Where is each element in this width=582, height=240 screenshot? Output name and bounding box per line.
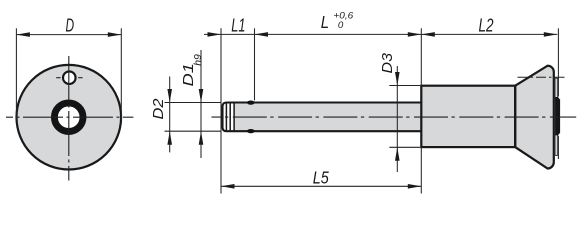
dimension D: extension line left (15, 28, 17, 120)
dimension D: arrow right (108, 32, 122, 37)
dimension D: dimension line (16, 34, 121, 36)
dimension D3: extension line top (389, 85, 420, 87)
arrow L2 left (pointing left) (421, 32, 435, 37)
side view: junction line sleeve/head (514, 86, 516, 147)
front view: center bore ring (58, 106, 80, 128)
side view: release button dark band (555, 97, 560, 135)
extension line at sleeve front (L right / L2 left / L5 right) above (420, 28, 422, 85)
dimension L5: arrow right (408, 184, 422, 189)
side view: tip white block (222, 102, 234, 133)
dimension D: arrow left (16, 32, 30, 37)
front view: pin head disc (17, 65, 122, 170)
side view: main axis centerline (212, 116, 577, 118)
front view: horizontal centerline (6, 116, 133, 118)
svg-text:h9: h9 (192, 54, 204, 66)
svg-text:+0,6: +0,6 (333, 11, 353, 21)
arrow L right (pointing right) (408, 32, 422, 37)
dimension D1/D2: extension line bottom (165, 130, 222, 132)
side view: shaft fill (234, 102, 421, 133)
dimension L5: dimension line (221, 185, 421, 187)
extension line at button face lower part (557, 136, 559, 159)
side view: button cylinder sliver (555, 78, 558, 155)
front view: lanyard hole tick right (78, 77, 82, 79)
dimension D3: extension line bottom (389, 146, 420, 148)
dimension D2: dimension line (169, 77, 171, 153)
svg-text:D3: D3 (379, 52, 396, 73)
dimension D3: arrow top (down) (395, 72, 400, 86)
svg-text:0: 0 (338, 20, 344, 30)
dimension D2: arrow top (down) (167, 89, 172, 103)
side view: sleeve body (421, 86, 515, 147)
arrow L2 right (pointing right) (544, 32, 558, 37)
dimension D1/D2: extension line top (165, 102, 222, 104)
front view: lanyard hole (63, 71, 76, 84)
svg-text:L: L (321, 12, 329, 32)
arrow L1 right / L left (pointing left) (255, 32, 269, 37)
side view: locking ball top (247, 101, 255, 105)
side view: lanyard hole centerline (516, 76, 565, 78)
dimension D1: dimension line (200, 50, 202, 158)
svg-text:L2: L2 (479, 16, 494, 36)
extension line at button face (L2 right) (557, 28, 559, 96)
front view: lanyard hole tick left (56, 77, 60, 79)
svg-text:L1: L1 (231, 15, 245, 36)
dimension D3: dimension line (396, 66, 398, 172)
top dimension line L1/L/L2 (204, 33, 557, 35)
extension line at ball edge (L1 right / L left) (254, 28, 256, 100)
side view: shaft outline with rounded tip (223, 103, 422, 132)
side view: tip chamfer line 1 (225, 103, 227, 131)
side view: tip chamfer line 2 (229, 103, 231, 131)
extension line at sleeve front below (420, 147, 422, 193)
dimension L5: arrow left (221, 184, 235, 189)
dimension D: extension line right (120, 28, 122, 120)
svg-text:L5: L5 (313, 168, 329, 188)
dimension D2: arrow bottom (up) (167, 131, 172, 145)
front view: vertical centerline (68, 56, 70, 181)
extension line at tip (L1/L5 left) (220, 28, 222, 193)
side view: tip chamfer line 3 (233, 103, 235, 131)
svg-text:D2: D2 (150, 98, 167, 120)
arrow L1 left (pointing right) (208, 32, 222, 37)
dimension D3: arrow bottom (up) (395, 147, 400, 161)
side view: head cone (515, 66, 554, 169)
side view: locking ball bottom (247, 129, 255, 133)
dimension D1: arrow bottom (up) (199, 131, 204, 145)
svg-text:D: D (66, 16, 75, 36)
dimension D1: arrow top (down) (199, 89, 204, 103)
